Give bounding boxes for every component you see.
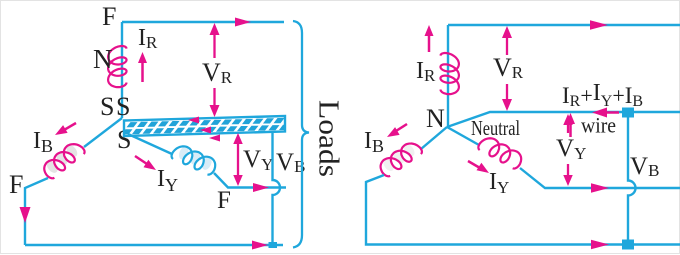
wire B-phase vertical with hop over Y line (left) (273, 132, 281, 246)
arrow IR up (left) (138, 52, 147, 82)
current arrow on Y line (left) (253, 183, 269, 192)
coil Y-phase winding (left, cyan) (170, 142, 218, 176)
wire Y-phase diagonal from bar (left) (128, 134, 172, 154)
arrow IB down-left (right) (387, 124, 407, 137)
voltage arrow VR (right) (502, 26, 512, 111)
svg-text:S: S (100, 92, 114, 121)
junction at bottom of B vertical (left) (269, 242, 278, 248)
coil R-phase winding (right) (441, 53, 459, 94)
voltage arrow VY (left) (233, 133, 243, 186)
wire R-phase vertical (right) (447, 25, 449, 127)
svg-text:IR: IR (416, 58, 436, 85)
wire R-phase vertical (left diagram) (121, 22, 123, 118)
coil Y-phase winding (right) (477, 134, 525, 171)
wire R-phase top line (right diagram) (448, 24, 680, 26)
current arrow on R line (left) (235, 18, 251, 27)
svg-text:Loads: Loads (313, 100, 345, 177)
star-point bus bar (hatched) (122, 116, 301, 136)
current arrow on Y line (right) (591, 183, 609, 193)
arrow IY down-right (left) (135, 156, 156, 170)
svg-text:Neutral: Neutral (471, 116, 520, 140)
current arrow on bottom line (left) (252, 241, 268, 250)
svg-text:N: N (426, 104, 445, 133)
coil B-phase winding (right) (377, 139, 423, 179)
svg-text:IR: IR (138, 25, 158, 52)
arrow IB down-left (left) (55, 123, 76, 135)
svg-text:VB: VB (630, 153, 659, 180)
svg-text:wire: wire (581, 113, 616, 138)
arrow IY down-right (right) (468, 161, 489, 173)
arrow up to neutral (right) (566, 113, 575, 137)
loads brace (293, 21, 309, 248)
current arrow on bottom line (right) (591, 240, 609, 250)
wire Y-phase to F corner and right (left) (214, 173, 286, 188)
junction square on neutral (right) (622, 108, 634, 118)
svg-text:F: F (9, 170, 23, 199)
wire Y-phase diagonal from N (right) (447, 127, 479, 145)
wire neutral from N (right) (447, 112, 680, 127)
coil B-phase winding (left) (40, 139, 86, 180)
svg-text:VY: VY (556, 135, 586, 163)
svg-text:IR+IY+IB: IR+IY+IB (562, 80, 643, 110)
arrow left on neutral (right) (592, 108, 619, 118)
junction square on bottom line (right) (622, 240, 634, 250)
small converging current arrows at star point (188, 117, 220, 142)
arrow IR up (right) (425, 25, 434, 52)
svg-text:VR: VR (202, 58, 233, 87)
svg-text:N: N (93, 44, 113, 74)
svg-text:F: F (217, 187, 231, 214)
svg-text:S: S (116, 92, 130, 121)
wire neutral-to-bottom vertical with hop (right) (628, 113, 636, 245)
wire B-phase to corner and bottom line (right) (366, 175, 680, 245)
wire Y-phase to corner and right (right) (520, 168, 680, 188)
wire B-phase to F corner and down (left) (25, 178, 48, 245)
wire B-phase diagonal from star point (left) (84, 118, 122, 147)
wire R-phase top line (left diagram) (122, 21, 284, 23)
svg-text:IB: IB (364, 128, 384, 156)
coil R-phase winding (left) (108, 46, 126, 87)
wire B-phase diagonal from N (right) (421, 127, 447, 149)
svg-text:VY: VY (243, 146, 273, 174)
wire B-phase bottom line (left) (25, 244, 283, 246)
svg-text:IB: IB (33, 128, 53, 156)
svg-text:IY: IY (489, 169, 509, 197)
current arrow down on B wire (left) (20, 207, 31, 223)
svg-text:F: F (102, 2, 116, 31)
voltage arrow VY (right) (563, 114, 573, 186)
svg-text:IY: IY (157, 166, 178, 195)
current arrow on R line (right) (590, 20, 608, 30)
svg-text:VR: VR (493, 53, 524, 82)
voltage arrow VR (left) (210, 23, 220, 117)
